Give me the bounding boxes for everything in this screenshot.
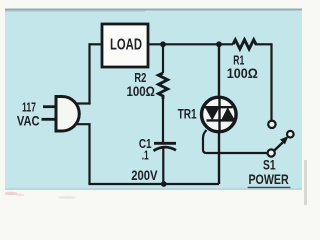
svg-text:R2: R2 bbox=[134, 70, 146, 85]
triac TR1 right triangle bbox=[221, 107, 236, 121]
bottom-left pink smudge bbox=[5, 192, 18, 195]
triac TR1 upper bar bbox=[205, 106, 233, 108]
wire: right drop from R1 to switch upper contact bbox=[270, 43, 272, 120]
node: junction dot C1 bottom bbox=[161, 181, 167, 187]
wire: left drop from plug bottom output to bottom rail bbox=[88, 124, 90, 184]
resistor R2 lead top bbox=[162, 43, 164, 73]
wire: top rail from left riser into LOAD bbox=[90, 43, 102, 45]
triac TR1 body circle bbox=[202, 97, 237, 132]
svg-text:100Ω: 100Ω bbox=[227, 66, 258, 81]
capacitor C1 curved plate bbox=[154, 147, 177, 151]
wire: triac gate lead bbox=[203, 130, 267, 153]
switch S1 lever with arrowhead bbox=[274, 142, 284, 151]
resistor R2 zigzag bbox=[158, 73, 167, 99]
wire: plug top output stub bbox=[73, 102, 91, 104]
cyan halftone panel bbox=[5, 9, 302, 190]
svg-text:200V: 200V bbox=[131, 167, 158, 183]
svg-text:LOAD: LOAD bbox=[110, 37, 142, 54]
node: junction dot at triac branch bbox=[216, 41, 222, 47]
svg-text:100Ω: 100Ω bbox=[126, 84, 155, 99]
wire: R2 to C1 bbox=[162, 98, 164, 143]
wire: left riser (hot side) to plug top output bbox=[88, 43, 90, 103]
switch S1 lever end contact bbox=[287, 131, 294, 138]
triac TR1 lower bar bbox=[207, 119, 235, 121]
svg-text:TR1: TR1 bbox=[178, 107, 197, 122]
switch S1 pole contact bbox=[268, 149, 275, 156]
AC plug prong lower bbox=[42, 118, 58, 121]
wire: triac MT2 lead from top rail bbox=[218, 43, 220, 98]
wire: C1 to bottom rail bbox=[162, 149, 164, 185]
AC plug body bbox=[56, 97, 79, 132]
panel bottom edge shading bbox=[5, 188, 302, 190]
panel top torn edge shading bbox=[5, 9, 302, 11]
wire: triac MT1 lead to bottom rail corner bbox=[218, 133, 220, 184]
triac TR1 left triangle bbox=[205, 106, 221, 120]
capacitor C1 flat plate bbox=[154, 142, 176, 145]
wire: bottom rail bbox=[88, 183, 219, 185]
AC plug prong upper bbox=[43, 105, 57, 108]
svg-text:117: 117 bbox=[22, 100, 36, 115]
svg-text:VAC: VAC bbox=[17, 113, 40, 128]
svg-text:POWER: POWER bbox=[248, 171, 288, 187]
bottom grey smudge bbox=[58, 196, 76, 199]
load box bbox=[102, 24, 148, 67]
wire: top rail from LOAD to R1 bbox=[148, 43, 233, 45]
svg-text:.1: .1 bbox=[142, 148, 149, 163]
right edge grey streak bbox=[304, 160, 307, 205]
resistor R1 zigzag bbox=[233, 40, 256, 49]
node: junction dot at R2 branch bbox=[160, 41, 166, 47]
switch S1 upper contact bbox=[268, 121, 275, 128]
POWER underline bbox=[248, 186, 291, 188]
wire: top rail from R1 to right corner bbox=[256, 43, 272, 45]
triac TR1 inner vertical bbox=[218, 98, 220, 132]
wire: plug bottom output stub bbox=[73, 123, 91, 125]
